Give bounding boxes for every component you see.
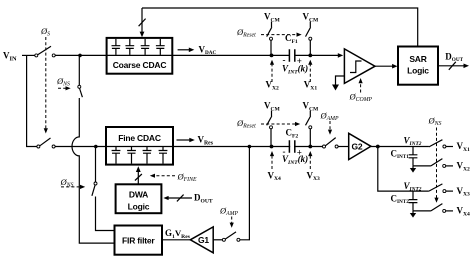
capacitor CINT1 [391,147,418,166]
switch NS VX4 [431,204,453,213]
svg-text:VCM: VCM [264,12,281,24]
wire phi_FINE dashed arrow [155,175,176,177]
op-amp G1 (left pointing) [190,227,213,253]
svg-text:CINT1: CINT1 [391,149,410,161]
wire DOUT into DWA with bus slash [168,197,192,199]
wire FIR output to G1 [162,239,190,241]
node junction G1 return [248,145,252,149]
wire branch down to INT2 row [378,147,429,192]
node junction at phi_NS branch [78,54,82,58]
svg-text:VCM: VCM [264,101,281,113]
svg-text:DWA: DWA [129,189,148,199]
switch phi_AMP (G1 output) [222,232,240,241]
capacitor CF2 [289,140,294,153]
wire SAR feedback top line [142,8,418,47]
switch NS VX2 [431,159,453,168]
capacitor array fine 2 [127,147,136,164]
svg-text:ØAMP: ØAMP [219,206,239,218]
wire comparator lower input [336,76,345,85]
capacitor array coarse 4 [156,39,165,55]
svg-text:ØCOMP: ØCOMP [349,92,373,104]
wire phi_Reset dashed arrow fine [261,123,295,125]
svg-text:Fine CDAC: Fine CDAC [118,133,161,143]
switch NS VX3 [429,184,453,193]
svg-text:VX1: VX1 [457,141,471,153]
svg-text:G2: G2 [352,142,363,152]
svg-text:VRes: VRes [198,135,214,147]
box Fine CDAC [106,127,173,165]
switch phi_S coarse sampling [35,46,55,57]
wire VX2 dashed arrow [271,65,273,83]
capacitor CINT2 [391,191,418,211]
svg-text:DOUT: DOUT [445,52,463,64]
svg-text:VX4: VX4 [268,170,282,182]
wire VDAC arrow [178,49,189,51]
wire VX2 row [413,165,431,167]
wire fine line from switch to CDAC [55,146,106,148]
svg-text:ØFINE: ØFINE [177,172,197,184]
node junction CF2 left [270,145,274,149]
ground CINT2 [412,211,414,213]
wire fine line to G2 [173,146,323,148]
wire DWA to Fine CDAC arrow with bus slash [137,172,139,185]
svg-text:VINT(k): VINT(k) [282,64,308,76]
svg-text:ØS: ØS [40,26,50,38]
svg-text:ØNS: ØNS [56,76,70,88]
node junction CF1 left [270,54,274,58]
wire phi_NS dashed arrow left [58,87,66,89]
svg-text:VINT2: VINT2 [404,136,422,148]
wire VIN branch down to fine path [27,55,37,146]
svg-text:SAR: SAR [409,54,426,64]
ground CINT1 [412,166,414,168]
op-amp G2 [349,133,371,159]
svg-text:FIR filter: FIR filter [122,236,155,246]
node junction G2 output [376,145,380,149]
wire fine line through box [106,146,173,148]
switch phi_NS (fine tap to FIR) [92,148,115,231]
ground comparator [332,85,339,91]
wire phi_AMP dashed arrow G1 [231,217,233,224]
switch phi_S fine sampling [37,138,55,148]
node junction CF2 right [308,145,312,149]
capacitor array coarse 1 [112,39,121,55]
switch NS VX1 [429,140,453,148]
capacitor array fine 1 [112,147,121,164]
switch VCM reset fine right [306,111,312,147]
svg-text:ØAMP: ØAMP [320,111,340,123]
wire G1 return up to fine line [240,147,250,240]
wire phi_COMP dashed arrow [360,83,362,93]
wire phi_AMP dashed arrow G2 [329,121,331,130]
switch phi_NS left (from VIN node down) [78,57,83,97]
switch VCM reset fine left [267,111,273,147]
wire phi_Reset dashed arrow coarse [261,34,297,36]
switch phi_AMP (into G2) [323,138,349,148]
wire coarse line box to CF1 [172,54,289,56]
box FIR filter [115,226,163,255]
wire phi_NS dashed control right [436,128,438,199]
node junction CF1 right [308,54,312,58]
svg-text:ØNS: ØNS [428,116,442,128]
svg-text:CF1: CF1 [285,33,298,45]
svg-text:Coarse CDAC: Coarse CDAC [113,60,167,70]
wire VX4 dashed arrow [271,156,273,169]
wire VIN to switch [22,54,35,56]
capacitor CF1 [289,49,294,62]
box DWA Logic [116,184,162,213]
wire phi_S dashed control line [45,37,47,129]
svg-text:ØReset: ØReset [236,27,256,39]
wire VX3 dashed arrow [309,156,311,169]
op-amp comparator [344,49,375,84]
svg-text:VX4: VX4 [457,206,471,218]
switch VCM reset coarse left [267,22,273,56]
node junction FIR tap [94,145,98,149]
svg-text:VX2: VX2 [457,161,471,173]
wire feedback drop into coarse CDAC with bus slash [141,8,143,32]
wire coarse line to CDAC [55,54,106,56]
svg-text:G1VRes: G1VRes [165,228,191,240]
wire G1 output to switch [213,239,222,241]
svg-text:VX3: VX3 [307,170,321,182]
wire VRes arrow [177,139,190,141]
capacitor array coarse 3 [141,39,150,55]
svg-text:DOUT: DOUT [194,193,213,205]
wire phi_NS branch down with hop over fine line [72,98,114,243]
svg-text:ØReset: ØReset [236,118,256,130]
wire G2 output [371,146,429,148]
wire into comparator [295,54,338,56]
svg-text:Logic: Logic [128,201,150,211]
svg-text:VDAC: VDAC [199,45,217,57]
svg-text:G1: G1 [198,235,209,245]
wire VX1 dashed arrow [309,65,311,83]
switch VCM reset coarse right [306,22,312,56]
svg-text:VINT(k): VINT(k) [282,154,308,166]
wire coarse line through box [107,54,173,56]
svg-text:VINT2: VINT2 [404,181,422,193]
svg-text:CINT2: CINT2 [391,194,410,206]
svg-text:Logic: Logic [407,66,429,76]
box Coarse CDAC [107,38,173,74]
capacitor array coarse 2 [125,39,134,55]
capacitor array fine 3 [143,147,152,164]
box SAR Logic [398,47,438,85]
svg-text:VX3: VX3 [457,186,471,198]
wire DOUT arrow with bus slash [438,65,464,67]
capacitor array fine 4 [159,147,168,164]
wire comparator output to SAR [375,65,393,67]
svg-text:VIN: VIN [3,51,17,63]
wire VX4 row [413,210,431,212]
svg-text:CF2: CF2 [286,128,299,140]
wire phi_NS dashed arrow mid [61,186,81,188]
